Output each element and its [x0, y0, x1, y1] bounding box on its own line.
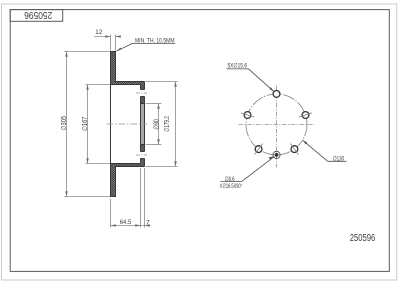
svg-text:64.5: 64.5: [120, 219, 132, 226]
svg-text:250596: 250596: [350, 233, 376, 244]
svg-text:∅179.2: ∅179.2: [164, 116, 171, 132]
svg-text:∅90: ∅90: [154, 119, 161, 130]
svg-text:V∅16.5X90°: V∅16.5X90°: [220, 182, 243, 190]
svg-text:12: 12: [95, 29, 103, 36]
svg-text:∅305: ∅305: [61, 116, 68, 131]
svg-text:250596: 250596: [24, 9, 52, 20]
svg-text:∅167: ∅167: [82, 116, 89, 131]
svg-text:7: 7: [146, 220, 150, 227]
